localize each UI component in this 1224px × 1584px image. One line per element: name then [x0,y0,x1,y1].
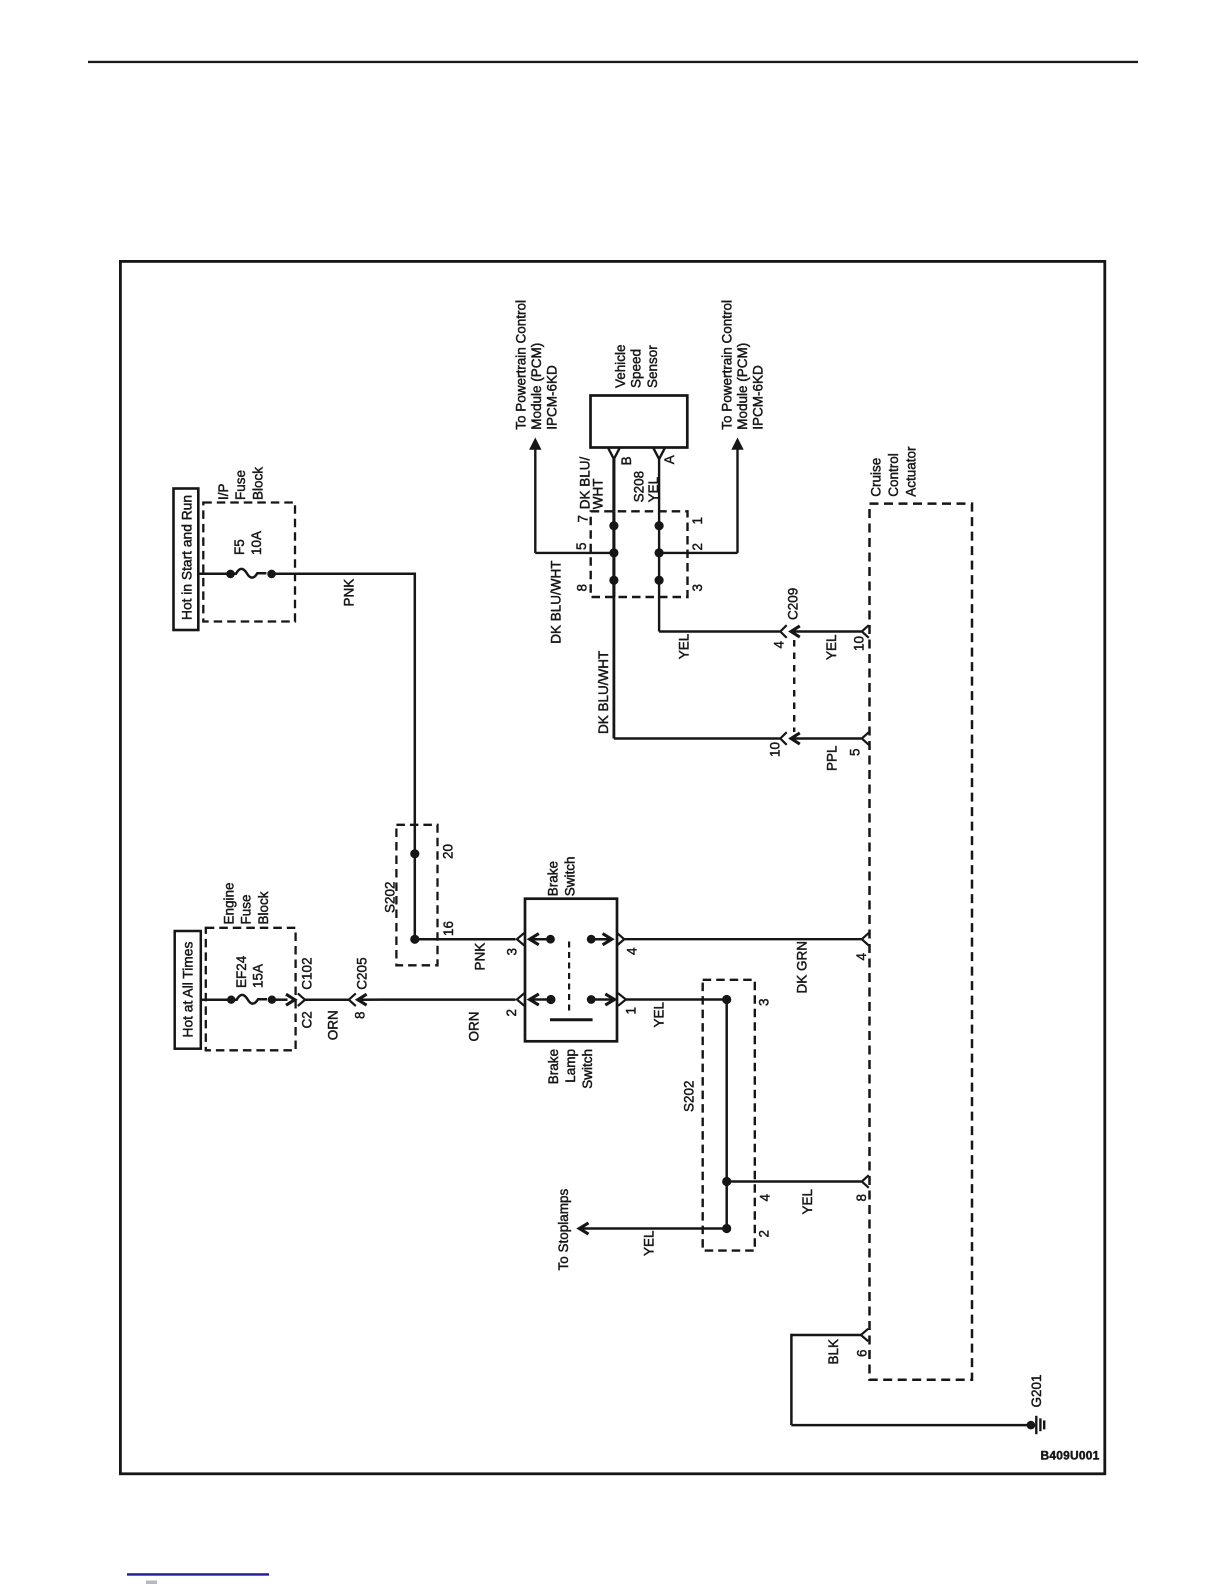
wire ORN C205 to brake switch pin 2 [358,998,516,1001]
wire DK BLU/WHT from VSS B to S208 pin 7 [612,459,615,511]
brake switch pin 1 connector [618,993,626,1006]
wire from Hot at All Times to fuse EF24 [201,998,228,1001]
wire YEL brake switch pin 1 to splice S202 [626,998,727,1000]
wire YEL from S208 pin 3 down [658,597,660,632]
svg-text:1: 1 [624,1007,639,1015]
node Hot at All Times [175,931,201,1049]
splice S202 lower (dashed) [682,980,755,1251]
svg-text:To Powertrain Control: To Powertrain Control [720,300,735,430]
wire BLK to ground [791,1424,1031,1427]
svg-text:Switch: Switch [580,1049,595,1089]
svg-text:C2: C2 [300,1011,315,1028]
svg-text:Hot in Start and Run: Hot in Start and Run [180,495,195,620]
junction dot S202 pin 2 [722,1224,731,1233]
svg-text:YEL: YEL [824,634,839,660]
svg-text:3: 3 [505,948,520,956]
svg-text:S202: S202 [682,1080,697,1112]
svg-text:2: 2 [757,1230,772,1238]
VSS pin A connector [654,448,665,459]
svg-text:YEL: YEL [677,633,692,659]
junction dot S202 pin 20 [410,849,419,858]
wire PNK vertical to splice S202 [414,573,417,854]
wire S208 pin 2 to right PCM arrow [659,552,737,554]
svg-text:A: A [662,455,677,464]
svg-text:3: 3 [757,998,772,1006]
svg-text:DK BLU/WHT: DK BLU/WHT [596,651,611,734]
Engine Fuse Block (dashed) [206,882,296,1050]
svg-text:5: 5 [574,542,589,550]
junction dot S202 pin 4 [722,1177,731,1186]
svg-text:2: 2 [504,1009,519,1017]
brake switch mechanical link [550,942,593,1020]
svg-text:C205: C205 [355,957,370,989]
svg-text:Block: Block [256,891,271,924]
svg-text:Vehicle: Vehicle [613,344,628,388]
Cruise Control Actuator (dashed) [869,446,973,1380]
brake switch contact lower [530,994,615,1005]
connector C102 female half [298,993,305,1006]
svg-text:YEL: YEL [646,476,661,502]
actuator pin 6 connector [861,1329,868,1342]
svg-text:To Powertrain Control: To Powertrain Control [514,300,529,430]
connector C209 pin 10 female half [780,732,786,745]
svg-text:4: 4 [758,1194,773,1202]
value label F5 10A [232,531,264,555]
bottom blue rule [127,1573,269,1576]
svg-text:Switch: Switch [563,857,578,897]
svg-text:ORN: ORN [326,1010,341,1040]
svg-text:WHT: WHT [591,479,606,510]
svg-text:C209: C209 [786,588,801,620]
svg-text:3: 3 [690,584,705,592]
junction dot S208 pin 2 [655,548,664,557]
svg-text:Sensor: Sensor [645,345,660,388]
svg-text:8: 8 [575,584,590,592]
svg-text:EF24: EF24 [234,955,249,988]
svg-text:B409U001: B409U001 [1041,1449,1100,1463]
wire fuse EF24 to connector C102 [276,998,288,1001]
wire S208 pin 5 to left PCM arrow [535,552,614,554]
svg-text:YEL: YEL [800,1188,815,1214]
wire BLK vertical [790,1334,793,1425]
svg-text:Fuse: Fuse [233,470,248,500]
svg-text:Module (PCM): Module (PCM) [529,343,544,430]
fuse F5 10A [226,569,276,578]
svg-text:Engine: Engine [222,882,237,924]
label Brake Lamp Switch [546,1049,595,1089]
actuator pin 4 connector [862,933,869,946]
connector C209 pin 4 male half [791,626,800,637]
svg-text:PPL: PPL [825,745,840,771]
splice S202 upper (dashed) [383,825,438,966]
arrow to stoplamps [579,1223,588,1234]
ground G201 [1027,1374,1045,1434]
connector C102 male half [286,994,295,1005]
junction dot S208 pin 7 [609,521,618,530]
wire DK GRN brake switch pin 4 to actuator pin 4 [624,938,862,940]
svg-text:15A: 15A [251,964,266,988]
svg-text:Brake: Brake [546,861,561,896]
svg-text:10: 10 [768,742,783,757]
junction dot S208 pin 5 [609,548,618,557]
svg-text:S208: S208 [632,471,647,503]
svg-text:20: 20 [441,844,456,859]
svg-text:G201: G201 [1029,1374,1044,1407]
svg-text:Cruise: Cruise [869,458,884,497]
svg-text:Lamp: Lamp [563,1049,578,1083]
svg-text:2: 2 [690,543,705,551]
svg-text:4: 4 [854,953,869,961]
brake switch pin 3 connector [517,933,524,946]
svg-text:5: 5 [848,748,863,756]
svg-text:6: 6 [855,1349,870,1357]
actuator pin 8 connector [862,1175,869,1188]
actuator pin 5 connector [862,732,869,745]
diagram border frame [120,261,1104,1473]
connector C209 pin 4 female half [780,625,786,638]
svg-text:BLK: BLK [826,1339,841,1365]
I/P Fuse Block (dashed) [203,467,295,622]
Vehicle Speed Sensor box [591,344,688,447]
svg-text:ORN: ORN [467,1012,482,1042]
value label EF24 15A [234,955,266,988]
svg-text:10: 10 [852,636,867,651]
svg-text:Module (PCM): Module (PCM) [735,343,750,430]
brake switch contact upper [530,934,612,945]
junction dot S208 pin 8 [609,576,618,585]
svg-text:F5: F5 [232,539,247,555]
svg-text:IPCM-6KD: IPCM-6KD [545,365,560,430]
fuse EF24 15A [227,995,276,1004]
label DK BLU/WHT [578,457,606,510]
svg-text:4: 4 [772,641,787,649]
svg-text:IPCM-6KD: IPCM-6KD [751,365,766,430]
svg-text:4: 4 [625,947,640,955]
svg-text:8: 8 [854,1194,869,1202]
svg-text:PNK: PNK [473,943,488,971]
svg-text:Speed: Speed [629,349,644,388]
arrow to Powertrain Control Module left [514,300,560,553]
svg-text:Block: Block [251,467,266,500]
svg-text:C102: C102 [300,957,315,989]
svg-text:DK BLU/WHT: DK BLU/WHT [549,561,564,644]
svg-text:16: 16 [441,921,456,936]
connector C205 male half [358,994,367,1005]
svg-text:8: 8 [353,1011,368,1019]
wire PPL to actuator pin 5 [791,737,861,739]
svg-text:PNK: PNK [342,579,357,607]
node Hot in Start and Run [174,489,199,631]
brake switch pin 4 connector [617,933,624,946]
connector C205 female half [349,993,356,1006]
svg-text:I/P: I/P [216,483,231,500]
connector C209 pin 10 male half [791,733,800,744]
brake switch pin 2 connector [517,993,524,1006]
wire S208 internal YEL [658,511,660,597]
wire S208 internal DK BLU/WHT [612,511,615,597]
svg-text:7: 7 [576,515,591,523]
junction dot S202 pin 3 [722,995,731,1004]
svg-text:10A: 10A [249,531,264,555]
cut text fragment at page bottom [146,1581,157,1584]
VSS pin B connector [608,448,619,459]
wire from Hot in Start and Run to fuse F5 [198,572,227,575]
wire S202 down leg [414,854,417,940]
svg-text:Hot at All Times: Hot at All Times [181,942,196,1038]
svg-text:To Stoplamps: To Stoplamps [556,1188,571,1270]
svg-text:YEL: YEL [652,1001,667,1027]
splice pack S208 (dashed) [591,471,688,597]
svg-text:Control: Control [886,453,901,497]
junction dot S208 pin 1 [655,521,664,530]
svg-text:Fuse: Fuse [239,894,254,924]
wire S202 internal vertical [725,1000,728,1229]
wire PNK horizontal from fuse F5 [276,572,417,575]
wire YEL from VSS A to S208 pin 1 [658,459,660,511]
junction dot S202 pin 16 corner [410,935,419,944]
arrow to Powertrain Control Module right [720,300,766,553]
svg-text:1: 1 [690,517,705,525]
svg-text:Brake: Brake [546,1049,561,1084]
wire PNK to brake switch pin 3 [415,938,516,941]
wire ORN C102 to C205 [305,998,349,1001]
wire BLK from actuator pin 6 [791,1334,861,1337]
wire YEL to actuator pin 8 [727,1180,862,1182]
actuator pin 10 connector [862,625,869,638]
wire DK BLU/WHT from S208 pin 8 down [613,597,616,739]
brake switch box [525,857,617,1042]
svg-text:S202: S202 [383,881,398,913]
connector C209 dashed line [793,640,795,732]
wire DK BLU/WHT to C209 pin 10 [614,737,780,739]
svg-text:B: B [619,456,634,465]
page top rule [88,61,1138,63]
svg-text:Actuator: Actuator [904,446,919,497]
wire YEL to C209 pin 4 [659,630,780,632]
junction dot S208 pin 3 [655,576,664,585]
wire YEL to stoplamps [581,1227,727,1229]
wire YEL to actuator pin 10 [791,630,861,632]
svg-text:DK GRN: DK GRN [795,941,810,994]
svg-text:YEL: YEL [642,1230,657,1256]
